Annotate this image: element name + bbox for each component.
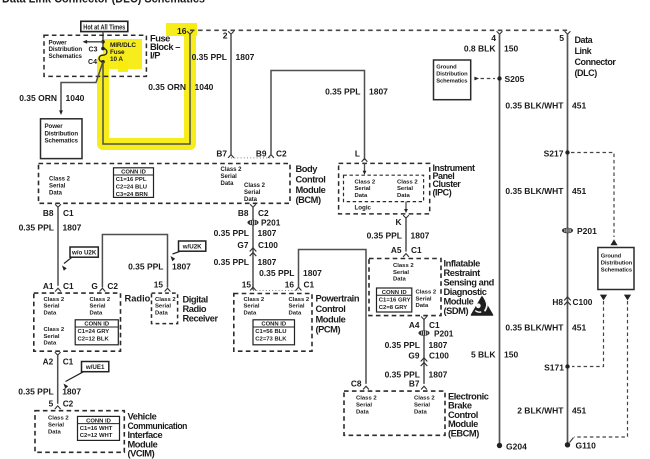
svg-text:B8: B8 [43, 208, 54, 218]
wire: 0.35 PPL 1807 BCM B9/C2 to IPC pin L [271, 71, 365, 161]
svg-text:B9: B9 [256, 149, 267, 159]
svg-text:Restraint: Restraint [444, 268, 481, 278]
svg-text:Data: Data [155, 310, 168, 316]
svg-text:CONN ID: CONN ID [121, 170, 146, 176]
module: Vehicle Communication Interface Module (VCIM) dashed box [35, 411, 124, 453]
wire: 0.35 PPL 1807 IPC K to SDM A5 [405, 218, 407, 252]
svg-text:Data: Data [48, 429, 61, 435]
svg-text:0.35 PPL: 0.35 PPL [128, 262, 163, 272]
svg-text:w/U2K: w/U2K [182, 244, 202, 251]
wire: arrow to Power Distribution Schematics (left) [87, 41, 103, 43]
label: Vehicle Communication Interface Module (VCIM) [128, 412, 188, 459]
svg-text:C2=24 BLU: C2=24 BLU [116, 185, 147, 191]
svg-text:Data Link Connector (DLC) Sche: Data Link Connector (DLC) Schematics [2, 0, 205, 6]
svg-text:451: 451 [572, 101, 586, 111]
svg-text:Serial: Serial [397, 186, 413, 192]
svg-text:0.35 ORN: 0.35 ORN [19, 93, 57, 103]
pin B8/C2 below BCM (right) [250, 204, 256, 207]
svg-text:0.35 BLK/WHT: 0.35 BLK/WHT [505, 186, 564, 196]
svg-text:G7: G7 [237, 240, 248, 250]
svg-text:Control: Control [316, 304, 346, 314]
module: Instrument Panel Cluster (IPC) dashed box [339, 163, 430, 214]
label: Class 2 Serial Data (PCM right) [289, 297, 310, 317]
pin L into IPC [362, 159, 368, 162]
svg-text:Data: Data [356, 409, 369, 415]
svg-text:Module: Module [444, 297, 474, 307]
svg-text:C1: C1 [63, 281, 74, 291]
dotted link PCM 15 to 16 [253, 290, 299, 292]
label: Body Control Module (BCM) [296, 164, 326, 205]
svg-text:150: 150 [504, 44, 518, 54]
wire arrow out of IPC logic to K [405, 202, 407, 211]
svg-text:1807: 1807 [429, 370, 448, 380]
svg-text:Data: Data [397, 193, 410, 199]
svg-text:Ground: Ground [436, 65, 457, 71]
svg-text:Receiver: Receiver [183, 314, 219, 324]
svg-text:Class 2: Class 2 [356, 396, 377, 402]
label: Class 2 Serial Data (BCM mid) [221, 167, 243, 187]
svg-text:C2: C2 [258, 208, 269, 218]
wire: ORN loop fuse C4 to DLC pin 16 (highlighted) [103, 34, 190, 144]
pin B7 into BCM [228, 155, 234, 158]
svg-text:C2: C2 [276, 149, 287, 159]
svg-text:Hot at All Times: Hot at All Times [83, 25, 125, 32]
svg-text:P201: P201 [434, 328, 454, 338]
svg-text:A5: A5 [391, 245, 402, 255]
svg-text:Class 2: Class 2 [44, 327, 65, 333]
label: Power Distribution Schematics (in fuse box) [49, 39, 83, 60]
pin 15 into PCM [250, 287, 256, 290]
svg-text:C1=16 WHT: C1=16 WHT [80, 426, 113, 432]
svg-text:C100: C100 [429, 351, 449, 361]
pin 2 of DLC [228, 31, 234, 34]
yellow highlighter over MIR/DLC fuse and ORN wire loop to DLC pin 16 [103, 23, 197, 144]
svg-text:5: 5 [559, 33, 564, 43]
wire: BLK/WHT ground wire DLC pin 5 to G110 [567, 34, 569, 445]
svg-text:G110: G110 [576, 441, 597, 451]
svg-text:1807: 1807 [62, 387, 81, 397]
svg-text:Class 2: Class 2 [44, 297, 65, 303]
fuse F1: MIR/DLC Fuse 10A [99, 49, 107, 62]
svg-text:S171: S171 [544, 362, 564, 372]
PCM CONN ID table [253, 320, 295, 345]
terminal dot C3 [101, 47, 105, 51]
svg-text:C2=8 GRY: C2=8 GRY [379, 305, 407, 311]
pin 5 of DLC [565, 31, 571, 34]
Power Distribution Schematics box (solid) [41, 119, 83, 159]
wire: SDM A4 to EBCM B7 [423, 320, 425, 384]
svg-text:451: 451 [572, 323, 586, 333]
svg-text:0.35 PPL: 0.35 PPL [214, 228, 249, 238]
svg-text:C1: C1 [63, 208, 74, 218]
label: fuse terminals C3 C4 [88, 46, 98, 66]
svg-text:Class 2: Class 2 [244, 297, 265, 303]
svg-text:Powertrain: Powertrain [316, 294, 360, 304]
svg-text:Serial: Serial [244, 190, 261, 196]
svg-text:C100: C100 [573, 297, 593, 307]
svg-text:2: 2 [223, 31, 228, 41]
svg-text:451: 451 [572, 406, 586, 416]
pin A2/C1 below Radio [55, 352, 61, 355]
label: Class 2 Serial Data (IPC right) [397, 180, 418, 199]
svg-text:G: G [91, 281, 97, 291]
DLC connector dashed line [190, 29, 568, 31]
svg-text:Class 2: Class 2 [393, 263, 414, 269]
svg-text:w/o U2K: w/o U2K [71, 250, 97, 257]
svg-text:S217: S217 [544, 148, 564, 158]
svg-text:Serial: Serial [416, 296, 432, 302]
svg-text:C8: C8 [351, 379, 362, 389]
splice S205 [497, 76, 501, 80]
svg-text:P201: P201 [577, 226, 597, 236]
svg-text:1807: 1807 [236, 52, 255, 62]
svg-text:Class 2: Class 2 [90, 297, 111, 303]
svg-text:C100: C100 [258, 240, 278, 250]
module: Body Control Module (BCM) dashed box [39, 164, 291, 204]
dashed ref from Ground Distribution box down to G110 [624, 295, 631, 301]
label: Class 2 Serial Data (IPC left) [355, 180, 376, 199]
svg-text:1040: 1040 [66, 93, 85, 103]
svg-text:(SDM): (SDM) [444, 306, 469, 316]
svg-text:(EBCM): (EBCM) [448, 428, 479, 438]
svg-text:0.35 ORN: 0.35 ORN [148, 82, 186, 92]
svg-text:C2=73 BLK: C2=73 BLK [255, 337, 287, 343]
svg-text:Class 2: Class 2 [289, 297, 310, 303]
svg-text:16: 16 [285, 280, 295, 290]
dashed ref from S217 to Ground Distribution box (right) [571, 153, 614, 238]
pin 5/C2 into VCIM [55, 406, 61, 409]
splice S217 [565, 150, 569, 154]
module: Radio dashed box [34, 293, 121, 351]
svg-text:Data: Data [416, 303, 429, 309]
svg-text:150: 150 [504, 350, 518, 360]
ground G204 [497, 443, 502, 448]
svg-text:Serial: Serial [155, 304, 171, 310]
label: Fuse Block - I/P [150, 34, 180, 61]
svg-text:B8: B8 [238, 208, 249, 218]
svg-text:Class 2: Class 2 [49, 177, 71, 183]
svg-text:A4: A4 [409, 320, 420, 330]
svg-text:C3=24 BRN: C3=24 BRN [116, 192, 148, 198]
dashed ref arrow from Ground Distribution box to S205 [474, 77, 479, 81]
svg-text:B7: B7 [216, 149, 227, 159]
svg-text:Serial: Serial [414, 403, 430, 409]
svg-text:C1: C1 [411, 245, 422, 255]
callout: w/U2K [173, 241, 206, 254]
svg-text:Fuse: Fuse [110, 49, 125, 56]
svg-text:Data: Data [244, 310, 257, 316]
wire label 5 BLK 150 [471, 350, 519, 360]
fuse box (dashed): Fuse Block - I/P [44, 35, 146, 76]
pin 16 of DLC [187, 31, 193, 34]
svg-text:L: L [355, 149, 360, 159]
svg-text:Serial: Serial [49, 183, 66, 189]
node: junction on fuse feed [101, 40, 105, 44]
label: Class 2 Serial Data (BCM right) [244, 183, 266, 203]
svg-text:1807: 1807 [411, 231, 430, 241]
inline connector C100 (G9) [421, 358, 428, 366]
dotted link B7 to B9 [231, 157, 271, 159]
svg-text:Data: Data [90, 310, 103, 316]
pin B8/C1 below BCM [55, 204, 61, 207]
svg-text:K: K [396, 217, 402, 227]
svg-text:Control: Control [296, 174, 326, 184]
svg-text:Class 2: Class 2 [416, 290, 437, 296]
svg-text:(PCM): (PCM) [316, 325, 341, 335]
label: Inflatable Restraint Sensing and Diagnostic Module (SDM) [444, 259, 495, 317]
VCIM CONN ID table [78, 416, 120, 440]
wire: Radio G/C2 to Digital Radio Receiver 15 (w/U2K) [102, 235, 167, 288]
svg-text:1807: 1807 [303, 268, 322, 278]
svg-text:0.35 BLK/WHT: 0.35 BLK/WHT [505, 101, 564, 111]
svg-text:Module: Module [316, 314, 346, 324]
svg-text:C1=16 PPL: C1=16 PPL [116, 177, 147, 183]
svg-text:Class 2: Class 2 [221, 167, 243, 173]
warning triangle (SRS) [472, 297, 493, 315]
svg-text:15: 15 [154, 280, 164, 290]
wire arrow into IPC logic [364, 163, 366, 172]
pin C8 into EBCM [363, 386, 369, 389]
svg-text:Data: Data [414, 409, 427, 415]
wire: 0.35 PPL 1807 Radio A2 to VCIM 5 [57, 355, 59, 404]
label: Digital Radio Receiver [183, 294, 219, 323]
connector P201 on ground wire [562, 228, 573, 234]
svg-text:0.35 PPL: 0.35 PPL [259, 268, 294, 278]
svg-text:Class 2: Class 2 [414, 396, 435, 402]
label: Radio [125, 294, 151, 304]
svg-text:G204: G204 [506, 441, 527, 451]
pin A5/C1 into SDM [403, 254, 409, 257]
wire: ORN from fuse C4 to Power Distribution Schematics box [61, 62, 103, 113]
label: Logic [355, 204, 372, 211]
svg-text:B7: B7 [409, 379, 420, 389]
pin B9/C2 into BCM [268, 155, 274, 158]
wire label 0.35 PPL 1807 (U2K branch) [128, 262, 191, 272]
svg-text:A2: A2 [43, 356, 54, 366]
svg-text:1807: 1807 [429, 340, 448, 350]
label: Class 2 Serial Data (SDM right) [416, 290, 437, 310]
pin A1/C1 into Radio [55, 288, 61, 291]
svg-text:C2: C2 [107, 281, 118, 291]
Ground Distribution Schematics box (left) [434, 60, 471, 100]
svg-text:C2: C2 [63, 399, 74, 409]
svg-text:Class 2: Class 2 [355, 180, 376, 186]
svg-text:C1=56 BLU: C1=56 BLU [255, 329, 286, 335]
wire: 0.35 PPL 1807 DLC pin 2 to BCM B7 [230, 34, 232, 154]
Ground Distribution Schematics box (right) [598, 248, 634, 290]
pin H8/C100 inline [564, 297, 571, 305]
svg-text:Data: Data [355, 193, 368, 199]
label: Instrument Panel Cluster (IPC) [433, 163, 475, 198]
svg-text:Serial: Serial [44, 304, 60, 310]
label: Class 2 Serial Data (Radio mid) [90, 297, 111, 317]
wire: Hot at All Times feed down to fuse [102, 32, 104, 49]
callout: w/o U2K [64, 247, 98, 264]
svg-text:Inflatable: Inflatable [444, 259, 481, 269]
svg-text:MIR/DLC: MIR/DLC [110, 42, 136, 49]
svg-text:Connector: Connector [575, 57, 617, 67]
svg-text:C2=12 WHT: C2=12 WHT [80, 433, 113, 439]
svg-text:Ground: Ground [601, 253, 622, 259]
pin 16/C1 into PCM [296, 287, 302, 290]
svg-text:Radio: Radio [125, 294, 151, 304]
svg-text:H8: H8 [552, 297, 563, 307]
pin K below IPC [403, 215, 409, 218]
svg-text:CONN ID: CONN ID [84, 322, 109, 328]
svg-text:CONN ID: CONN ID [382, 290, 407, 296]
label: Class 2 Serial Data (EBCM left) [356, 396, 377, 416]
svg-text:Class 2: Class 2 [397, 180, 418, 186]
svg-text:1807: 1807 [369, 87, 388, 97]
connector P201 on SDM wire [418, 330, 429, 336]
svg-text:2 BLK/WHT: 2 BLK/WHT [517, 406, 564, 416]
svg-text:Distribution: Distribution [436, 72, 468, 78]
svg-text:Data: Data [44, 341, 57, 347]
label: Class 2 Serial Data (Radio left) [44, 297, 65, 317]
label: Class 2 Serial Data (PCM left) [244, 297, 265, 317]
title: Data Link Connector (DLC) Schematics (cut off at top) [2, 0, 205, 6]
svg-text:1807: 1807 [258, 228, 277, 238]
splice S171 [565, 364, 569, 368]
svg-text:Schematics: Schematics [436, 79, 467, 85]
pin 15 into Digital Radio Receiver [165, 288, 171, 291]
connector P201 on wire [247, 220, 258, 226]
svg-text:S205: S205 [505, 74, 525, 84]
label: Power Distribution Schematics [45, 123, 79, 144]
svg-text:0.35 BLK/WHT: 0.35 BLK/WHT [505, 323, 564, 333]
svg-text:C1: C1 [304, 280, 315, 290]
svg-text:1807: 1807 [172, 262, 191, 272]
svg-text:0.35 PPL: 0.35 PPL [367, 231, 402, 241]
svg-text:0.8 BLK: 0.8 BLK [464, 44, 497, 54]
pin G/C2 into Radio [100, 288, 106, 291]
svg-text:Logic: Logic [355, 204, 372, 211]
svg-text:Serial: Serial [48, 423, 64, 429]
svg-text:10 A: 10 A [110, 56, 123, 63]
wire label 0.35 ORN 1040 (right) [148, 82, 213, 92]
svg-text:16: 16 [177, 26, 187, 36]
svg-text:15: 15 [242, 280, 252, 290]
label: MIR/DLC Fuse 10 A [110, 42, 136, 63]
wire: 0.35 PPL 1807 BCM B8/C1 to Radio A1 (w/o U2K) [57, 207, 59, 286]
svg-text:Schematics: Schematics [601, 267, 632, 273]
pin 4 of DLC [497, 31, 503, 34]
svg-text:P201: P201 [261, 218, 281, 228]
label: Class 2 Serial Data (Radio lower) [44, 327, 65, 347]
dashed ref from Ground Distribution box down to S171 [600, 295, 607, 301]
svg-text:Serial: Serial [356, 403, 372, 409]
svg-text:Class 2: Class 2 [244, 183, 266, 189]
svg-text:C1: C1 [63, 356, 74, 366]
svg-text:Class 2: Class 2 [48, 416, 69, 422]
svg-text:Serial: Serial [355, 186, 371, 192]
svg-text:Schematics: Schematics [45, 137, 79, 144]
svg-text:Digital: Digital [183, 294, 208, 304]
svg-text:CONN ID: CONN ID [86, 418, 111, 424]
svg-text:451: 451 [572, 186, 586, 196]
svg-text:Link: Link [575, 46, 593, 56]
svg-text:0.35 PPL: 0.35 PPL [214, 257, 249, 267]
svg-text:(DLC): (DLC) [575, 68, 598, 78]
svg-text:C2=12 BLK: C2=12 BLK [78, 337, 110, 343]
svg-text:Distribution: Distribution [45, 130, 79, 137]
wire: PCM 16/C1 to EBCM C8 [299, 250, 367, 384]
terminal dot C4 [101, 60, 105, 64]
svg-text:0.35 PPL: 0.35 PPL [192, 52, 227, 62]
svg-text:(IPC): (IPC) [433, 187, 452, 197]
svg-text:1040: 1040 [195, 82, 214, 92]
svg-text:Module: Module [296, 185, 326, 195]
svg-text:Serial: Serial [244, 304, 260, 310]
svg-text:Data: Data [289, 310, 302, 316]
module: Powertrain Control Module (PCM) dashed box [234, 294, 312, 352]
wire: BCM B8/C2 down to PCM 15 [252, 207, 254, 290]
label: Data Link Connector (DLC) [575, 35, 617, 78]
svg-text:Schematics: Schematics [49, 53, 83, 60]
svg-text:Diagnostic: Diagnostic [444, 287, 487, 297]
svg-text:1807: 1807 [63, 223, 82, 233]
SDM CONN ID table [377, 288, 412, 312]
svg-text:A1: A1 [43, 281, 54, 291]
svg-text:(BCM): (BCM) [296, 195, 321, 205]
svg-text:Data: Data [244, 197, 258, 203]
svg-text:Class 2: Class 2 [155, 297, 176, 303]
inline connector C100 (G7) [250, 248, 257, 256]
svg-text:C1=24 GRY: C1=24 GRY [78, 329, 110, 335]
Radio CONN ID table [75, 320, 118, 345]
BCM CONN ID table [114, 168, 154, 198]
svg-text:G9: G9 [408, 351, 419, 361]
svg-text:Data: Data [49, 190, 63, 196]
svg-text:Power: Power [45, 123, 64, 130]
svg-text:C1=16 GRY: C1=16 GRY [379, 297, 411, 303]
svg-text:Body: Body [296, 164, 319, 174]
svg-text:0.35 PPL: 0.35 PPL [385, 340, 420, 350]
svg-text:Distribution: Distribution [601, 260, 633, 266]
svg-text:I/P: I/P [150, 51, 160, 61]
svg-text:5: 5 [49, 399, 54, 409]
module: Electronic Brake Control Module (EBCM) dashed box [344, 391, 445, 435]
svg-text:Radio: Radio [183, 304, 207, 314]
IPC inner logic dashed box [344, 175, 424, 201]
wire label 0.35 ORN 1040 (left) [19, 93, 84, 103]
svg-text:C3: C3 [89, 46, 98, 53]
label: Class 2 Serial Data (BCM left) [49, 177, 71, 197]
svg-text:Serial: Serial [221, 174, 238, 180]
svg-text:Serial: Serial [90, 304, 106, 310]
label: Powertrain Control Module (PCM) [316, 294, 360, 335]
pin B7 into EBCM [421, 386, 427, 389]
label: Electronic Brake Control Module (EBCM) [448, 392, 489, 439]
svg-text:Serial: Serial [289, 304, 305, 310]
svg-text:Serial: Serial [44, 334, 60, 340]
svg-text:1807: 1807 [258, 257, 277, 267]
svg-text:Data: Data [221, 181, 235, 187]
label: Class 2 Serial Data (EBCM right) [414, 396, 435, 416]
svg-text:Data: Data [44, 310, 57, 316]
pin A4/C1 below SDM [421, 317, 427, 320]
svg-text:5 BLK: 5 BLK [471, 350, 496, 360]
svg-text:w/UE1: w/UE1 [85, 364, 105, 371]
svg-text:Data: Data [575, 35, 594, 45]
label: Class 2 Serial Data (VCIM) [48, 416, 69, 436]
svg-text:0.35 PPL: 0.35 PPL [325, 87, 360, 97]
wire: BLK ground wire DLC pin 4 to G204 [499, 34, 501, 445]
svg-text:Serial: Serial [393, 270, 409, 276]
svg-text:C4: C4 [88, 59, 97, 66]
label: Hot at All Times box [81, 21, 128, 31]
svg-text:0.35 PPL: 0.35 PPL [18, 387, 53, 397]
